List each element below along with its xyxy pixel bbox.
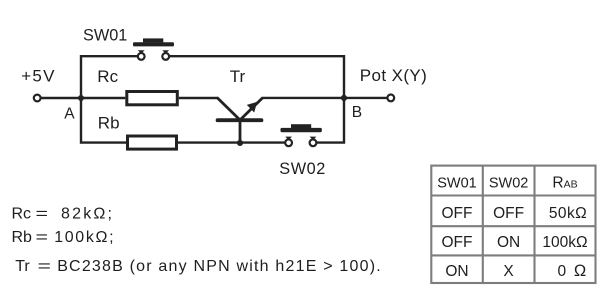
svg-text:OFF: OFF xyxy=(442,234,473,251)
wire: left bus (top branch corner, node A, bottom branch corner) xyxy=(81,56,138,142)
svg-text:0: 0 xyxy=(557,263,566,280)
svg-text:SW02: SW02 xyxy=(489,175,529,191)
table: switch truth table xyxy=(431,166,595,283)
junction: transistor base to bottom branch xyxy=(237,140,243,146)
wire: +5V terminal to node A xyxy=(41,97,82,99)
svg-text:SW02: SW02 xyxy=(279,160,326,178)
svg-text:SW01: SW01 xyxy=(437,175,477,191)
wire: node B to output terminal xyxy=(344,97,388,99)
svg-text:Pot X(Y): Pot X(Y) xyxy=(360,66,427,85)
terminal: Pot X(Y) output xyxy=(387,95,394,102)
transistor Tr (NPN) xyxy=(217,98,263,144)
svg-text:Rb: Rb xyxy=(12,229,33,246)
svg-text:+5V: +5V xyxy=(21,67,56,86)
svg-text:50kΩ: 50kΩ xyxy=(549,205,587,222)
svg-text:ON: ON xyxy=(497,234,520,251)
svg-text:=: = xyxy=(36,229,49,246)
wire: top branch from SW01 to right bus and down to bottom branch xyxy=(170,56,345,142)
svg-text:=: = xyxy=(36,205,49,222)
svg-text:82kΩ;: 82kΩ; xyxy=(61,205,114,222)
note: Rc value xyxy=(12,205,115,222)
wire: resistor Rc to transistor collector xyxy=(179,97,218,99)
resistor Rc xyxy=(127,92,178,105)
wire: resistor Rb to base junction and SW02 xyxy=(178,141,285,143)
svg-text:X: X xyxy=(503,263,514,280)
switch SW02 (push button) xyxy=(281,124,322,146)
node A junction dot xyxy=(78,95,84,101)
svg-text:RAB: RAB xyxy=(552,174,577,191)
wire: transistor emitter to node B xyxy=(262,97,344,99)
note: Tr type xyxy=(15,258,382,275)
svg-text:=: = xyxy=(38,258,52,275)
svg-text:Rc: Rc xyxy=(12,205,32,222)
svg-text:Tr: Tr xyxy=(230,67,246,86)
svg-text:100kΩ;: 100kΩ; xyxy=(54,229,115,246)
svg-text:OFF: OFF xyxy=(493,205,524,222)
svg-text:ON: ON xyxy=(445,263,468,280)
svg-text:Tr: Tr xyxy=(15,258,30,275)
svg-text:100kΩ: 100kΩ xyxy=(542,234,587,251)
terminal: +5V input xyxy=(34,95,41,102)
svg-text:Rb: Rb xyxy=(98,114,120,133)
switch SW01 (push button) xyxy=(133,38,174,59)
node B junction dot xyxy=(341,95,347,101)
svg-text:OFF: OFF xyxy=(442,205,473,222)
svg-text:Ω: Ω xyxy=(574,262,586,280)
svg-text:A: A xyxy=(64,105,75,122)
resistor Rb xyxy=(128,136,177,149)
svg-text:B: B xyxy=(352,104,362,121)
note: Rb value xyxy=(12,229,116,246)
svg-text:BC238B (or any NPN with h21E >: BC238B (or any NPN with h21E > 100). xyxy=(57,258,382,275)
wire: node A to resistor Rc xyxy=(81,97,125,99)
svg-text:Rc: Rc xyxy=(97,67,118,86)
svg-text:SW01: SW01 xyxy=(83,27,127,45)
